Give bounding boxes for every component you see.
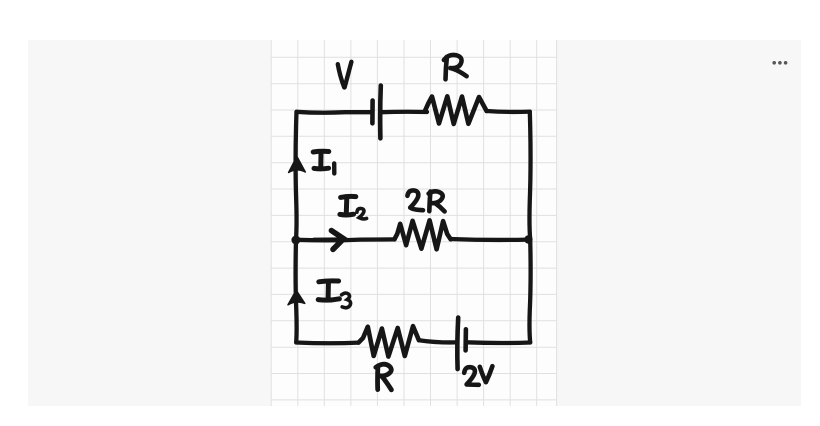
label V (top battery)	[338, 62, 352, 88]
grid paper	[271, 40, 557, 406]
battery 2V negative plate (short bar)	[463, 329, 468, 350]
wire: middle branch left (node to resistor 2R)	[296, 237, 395, 242]
junction node right (middle branch)	[524, 235, 532, 243]
wire: bottom segment between resistor and battery 2V	[419, 340, 455, 342]
label I1 with subscript	[313, 151, 334, 173]
wire: middle branch right (resistor to node)	[451, 237, 528, 242]
label 2V (bottom battery)	[464, 366, 492, 385]
arrow I3 (current up, left lower branch)	[288, 290, 305, 305]
resistor 2R zigzag	[394, 220, 450, 249]
battery 2V positive plate (tall bar)	[455, 318, 460, 370]
label I3 with subscript	[318, 281, 350, 308]
wire: top segment left (corner to battery V)	[297, 110, 372, 115]
battery V negative plate (short bar)	[370, 101, 375, 124]
resistor R (top) zigzag	[425, 96, 487, 124]
arrow I1 (current up, left upper branch)	[289, 157, 306, 173]
junction node left (middle branch)	[291, 236, 300, 245]
wire: left vertical branch	[296, 112, 297, 343]
label I2 with subscript	[340, 196, 367, 218]
wire: bottom segment left (corner to resistor R)	[296, 340, 358, 345]
arrow I2 (current right, middle branch)	[314, 231, 344, 250]
label R (bottom resistor)	[376, 364, 392, 390]
label 2R (middle resistor)	[407, 190, 444, 211]
menu dots (top-right ellipsis)	[772, 61, 787, 65]
battery V positive plate (tall bar)	[378, 86, 383, 139]
wire: top segment right (resistor to corner)	[487, 109, 530, 114]
resistor R (bottom) zigzag	[359, 326, 419, 357]
wire: top segment between battery and resistor R	[382, 110, 428, 115]
label R (top resistor)	[444, 55, 467, 79]
wire: right vertical branch	[529, 112, 530, 343]
wire: bottom segment right (battery to corner)	[467, 340, 531, 345]
